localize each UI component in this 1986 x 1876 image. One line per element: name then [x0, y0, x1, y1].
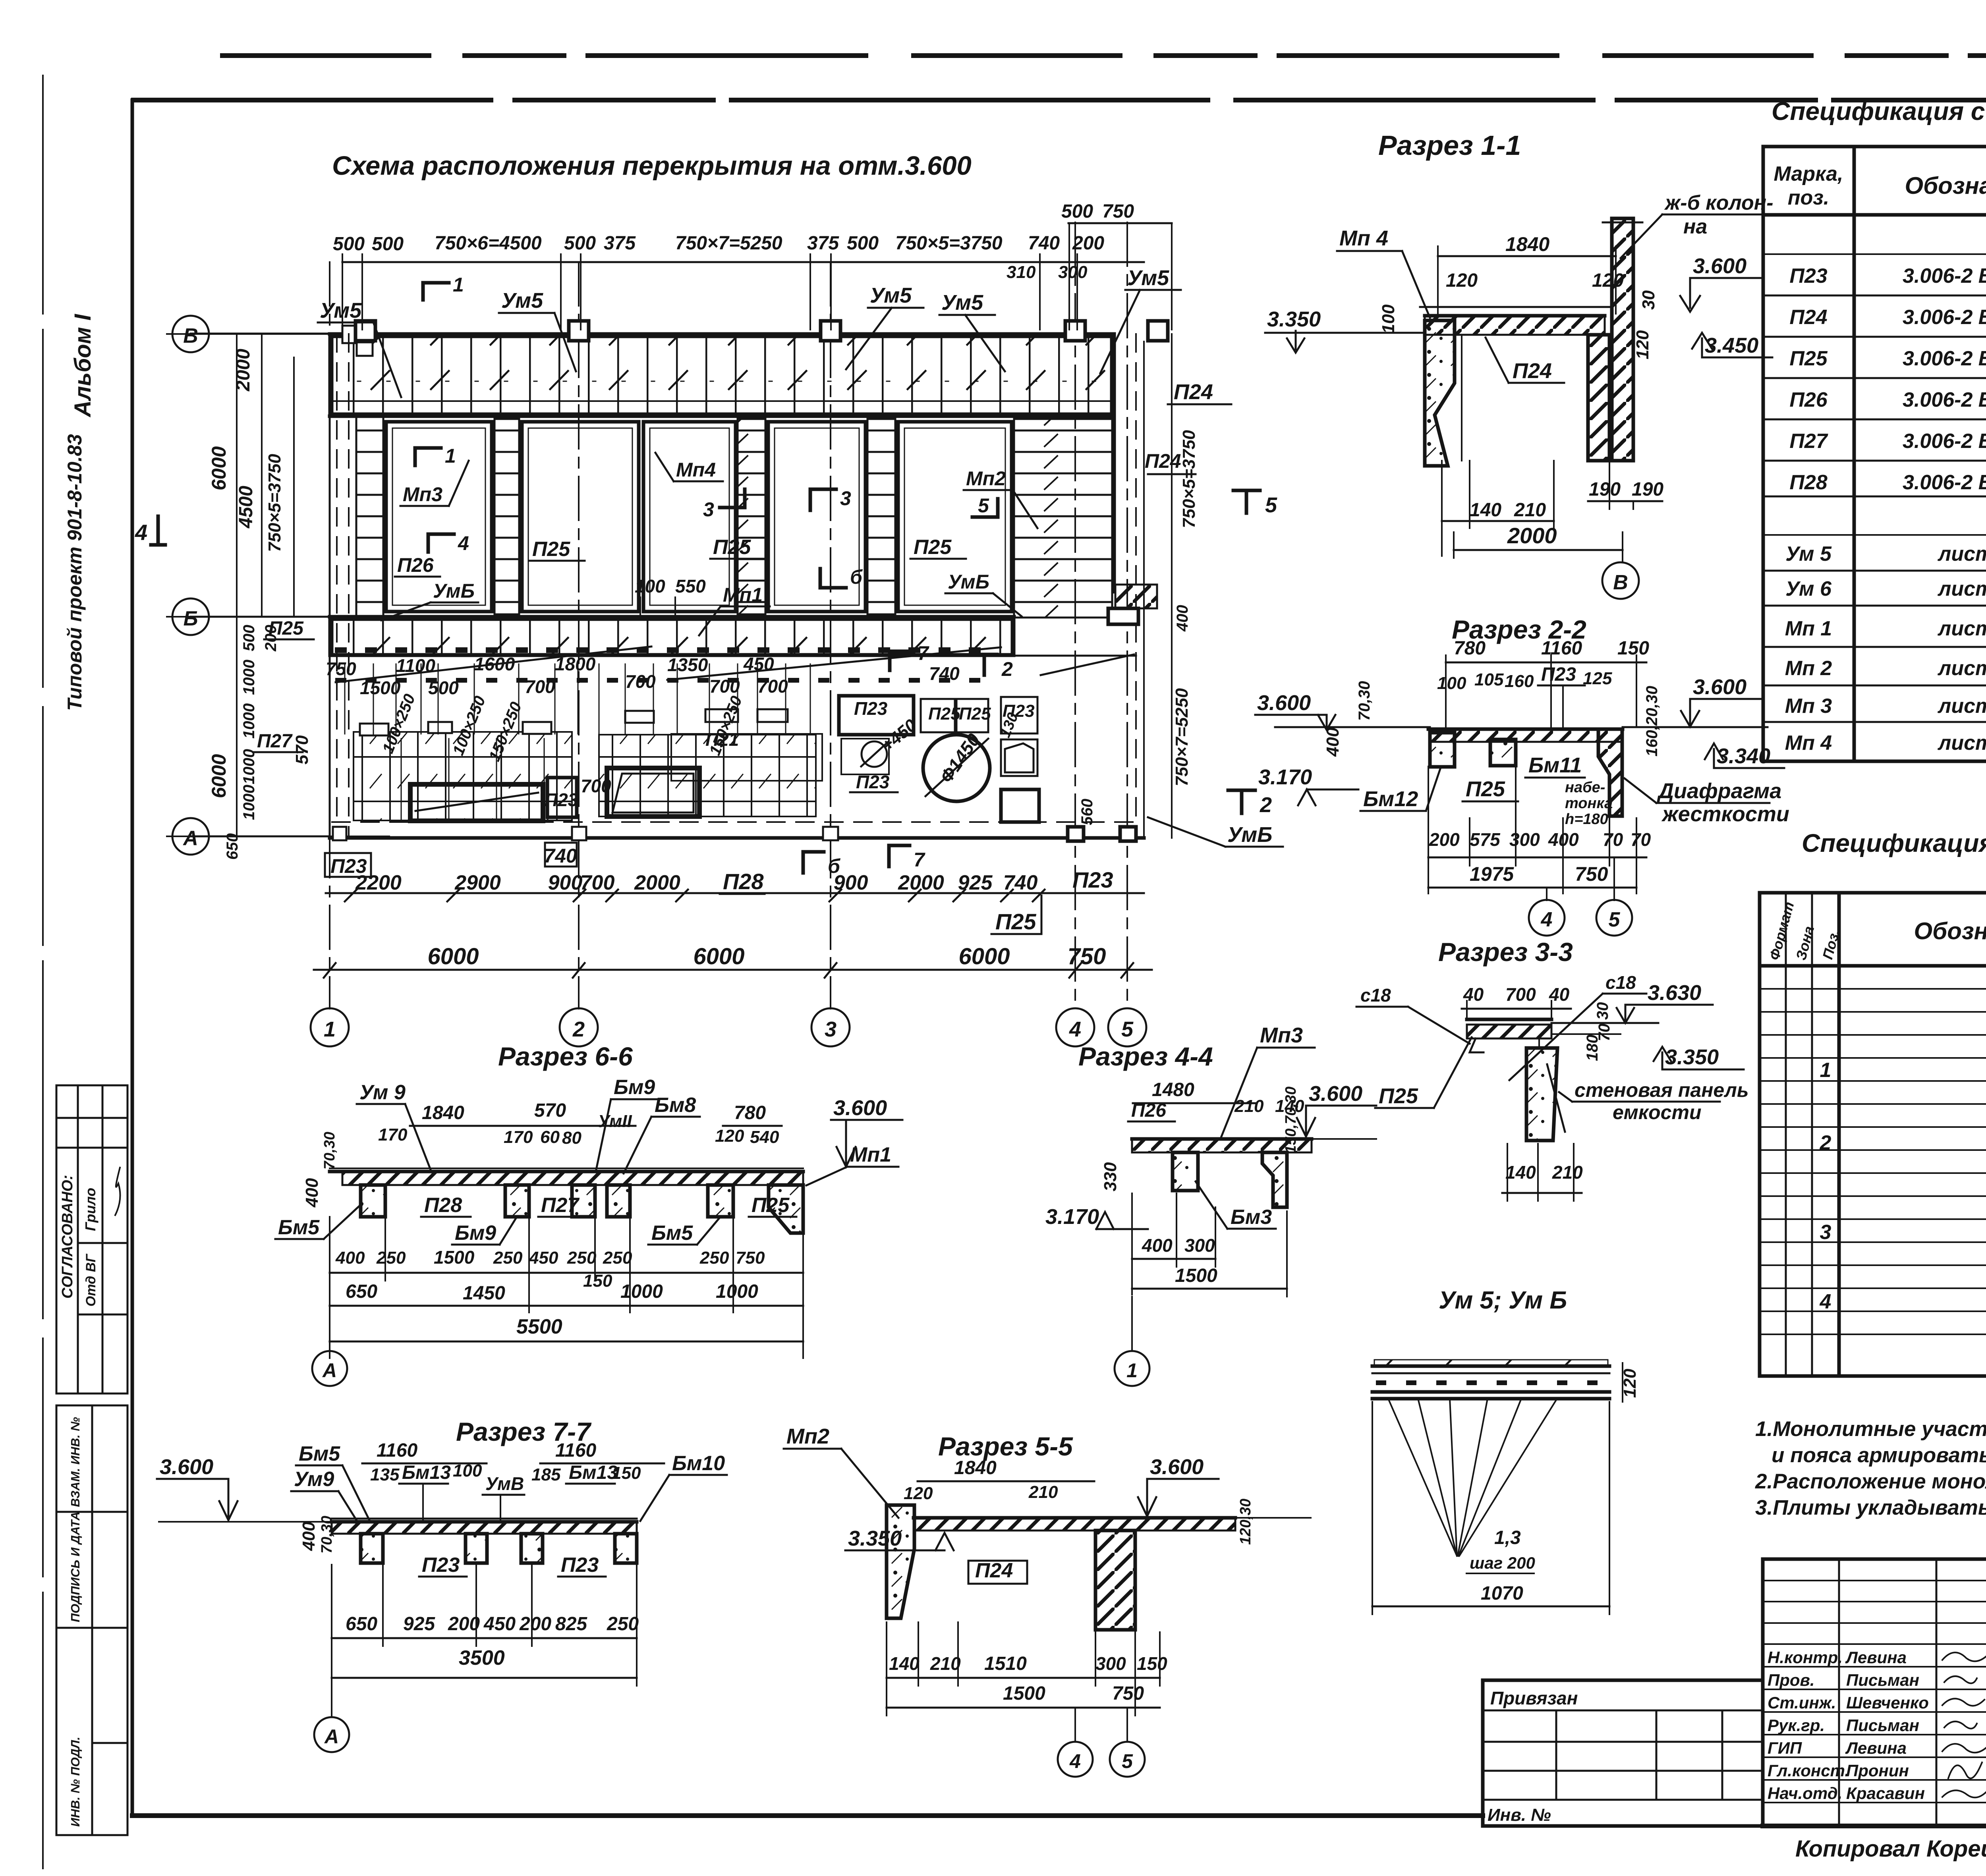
svg-text:Бм11: Бм11 [1528, 753, 1582, 777]
svg-text:Ум 5; Ум Б: Ум 5; Ум Б [1439, 1287, 1567, 1314]
beams 6-6 [361, 1185, 385, 1217]
left beam [1430, 733, 1455, 767]
section mark 2 right [972, 653, 997, 656]
svg-text:375: 375 [807, 233, 839, 254]
svg-text:3: 3 [825, 1017, 837, 1041]
svg-text:Бм5: Бм5 [278, 1216, 320, 1239]
svg-text:100: 100 [1379, 304, 1398, 334]
svg-text:185: 185 [531, 1465, 561, 1484]
svg-text:5: 5 [1265, 493, 1277, 517]
right wall + column hatched [1588, 335, 1609, 461]
svg-text:1840: 1840 [422, 1102, 464, 1123]
svg-text:150: 150 [1617, 638, 1649, 659]
svg-text:700: 700 [581, 776, 611, 796]
svg-text:Красавин: Красавин [1846, 1784, 1925, 1803]
svg-text:3500: 3500 [459, 1646, 505, 1669]
section marks bottom [802, 852, 805, 873]
svg-text:6000: 6000 [427, 944, 479, 969]
circle 1 [1131, 1297, 1133, 1350]
svg-text:Бм10: Бм10 [672, 1452, 725, 1475]
svg-text:Копировал Корецкая: Копировал Корецкая [1795, 1836, 1986, 1862]
fan lines [1388, 1399, 1457, 1556]
ladder wall [867, 419, 895, 614]
column squares on grid B [342, 326, 360, 343]
svg-text:П28: П28 [424, 1194, 462, 1217]
svg-text:1160: 1160 [555, 1440, 597, 1461]
rooms band outer walls [330, 415, 1114, 418]
beam 4-4 [1173, 1152, 1198, 1191]
svg-text:250: 250 [376, 1248, 406, 1268]
svg-text:А: А [182, 827, 198, 850]
svg-text:1500: 1500 [360, 677, 401, 698]
svg-text:П23: П23 [1541, 664, 1576, 685]
svg-text:570: 570 [292, 735, 312, 764]
svg-text:3.350: 3.350 [1665, 1045, 1719, 1069]
svg-text:3.006-2 Вып.II-2: 3.006-2 Вып.II-2 [1903, 430, 1986, 453]
svg-text:Привязан: Привязан [1490, 1688, 1578, 1708]
svg-text:с18: с18 [1605, 972, 1636, 993]
svg-text:Бм3: Бм3 [1231, 1206, 1272, 1229]
svg-text:2: 2 [1260, 793, 1272, 817]
svg-text:210: 210 [930, 1653, 961, 1674]
svg-text:Разрез 5-5: Разрез 5-5 [938, 1432, 1073, 1461]
svg-text:30: 30 [1594, 1002, 1611, 1020]
signatures squiggles [1942, 1652, 1986, 1661]
svg-text:Ст.инж.: Ст.инж. [1768, 1693, 1836, 1712]
svg-text:100: 100 [453, 1461, 482, 1480]
svg-text:450: 450 [483, 1614, 516, 1635]
svg-text:Бм8: Бм8 [655, 1094, 696, 1117]
T2 mark [1228, 789, 1255, 792]
svg-text:3.006-2 Вып.II-2: 3.006-2 Вып.II-2 [1903, 347, 1986, 370]
svg-text:925: 925 [403, 1614, 435, 1635]
svg-text:П26: П26 [1789, 388, 1828, 411]
svg-text:Схема расположения перекрытия: Схема расположения перекрытия на отм.3.6… [332, 151, 972, 181]
svg-text:6000: 6000 [958, 944, 1010, 969]
svg-text:100: 100 [1437, 674, 1466, 693]
svg-text:Марка,: Марка, [1774, 162, 1843, 185]
svg-text:Ум 5: Ум 5 [1785, 542, 1832, 566]
svg-text:Спецификация сборных ж-б монол: Спецификация сборных ж-б монолитных элем… [1772, 97, 1986, 125]
svg-text:650: 650 [346, 1281, 377, 1302]
svg-text:4: 4 [135, 520, 147, 545]
frame left border [131, 100, 134, 1816]
svg-text:Типовой проект 901-8-10.83: Типовой проект 901-8-10.83 [64, 434, 86, 711]
svg-text:740: 740 [929, 663, 960, 684]
room 5 [898, 422, 1012, 612]
svg-text:7: 7 [914, 849, 925, 871]
svg-text:б: б [828, 855, 841, 877]
svg-text:500: 500 [847, 233, 879, 254]
svg-text:250: 250 [607, 1614, 639, 1635]
svg-text:ж-б колон-: ж-б колон- [1664, 191, 1773, 214]
svg-text:5500: 5500 [516, 1315, 562, 1338]
svg-text:П25: П25 [1466, 777, 1505, 801]
svg-text:1160: 1160 [377, 1440, 418, 1461]
svg-text:900: 900 [548, 871, 583, 894]
middle beam [1490, 739, 1516, 766]
svg-text:П23: П23 [561, 1554, 599, 1577]
svg-text:750×6=4500: 750×6=4500 [435, 233, 542, 254]
svg-text:УмБ: УмБ [433, 580, 475, 602]
svg-text:Диафрагма: Диафрагма [1657, 779, 1781, 803]
svg-text:на: на [1683, 215, 1707, 238]
svg-text:П23: П23 [1789, 264, 1827, 288]
svg-text:Пронин: Пронин [1846, 1761, 1909, 1780]
svg-text:Грило: Грило [82, 1188, 99, 1231]
svg-text:Рук.гр.: Рук.гр. [1768, 1716, 1825, 1735]
svg-text:170: 170 [378, 1125, 408, 1145]
svg-text:1: 1 [1820, 1059, 1831, 1082]
slab 7-7 [159, 1521, 332, 1523]
svg-text:750×5=3750: 750×5=3750 [265, 454, 284, 552]
svg-text:190: 190 [1632, 479, 1663, 500]
svg-text:Мп2: Мп2 [786, 1424, 829, 1448]
svg-text:330: 330 [1101, 1162, 1120, 1191]
svg-text:2000: 2000 [1507, 523, 1557, 548]
svg-text:Альбом I: Альбом I [70, 313, 96, 418]
svg-text:Ум9: Ум9 [294, 1468, 334, 1491]
svg-text:180: 180 [1584, 1035, 1601, 1061]
svg-text:700: 700 [625, 671, 656, 692]
top paper broken line [222, 53, 1986, 58]
svg-text:3.600: 3.600 [833, 1096, 887, 1120]
svg-text:500: 500 [372, 234, 404, 255]
slab 3-3 [1467, 1025, 1551, 1038]
svg-text:Разрез 6-6: Разрез 6-6 [498, 1042, 633, 1071]
svg-text:Мп3: Мп3 [1260, 1023, 1303, 1047]
svg-text:Мп 3: Мп 3 [1785, 695, 1832, 718]
left paper edge [42, 75, 44, 1868]
svg-text:ВЗАМ. ИНВ. №: ВЗАМ. ИНВ. № [68, 1417, 82, 1507]
svg-text:1070: 1070 [1481, 1583, 1523, 1604]
band under B2 line [330, 615, 1014, 619]
room 4 [768, 422, 865, 612]
svg-text:Обозначение: Обозначение [1905, 172, 1986, 199]
svg-text:Бм5: Бм5 [651, 1222, 693, 1245]
svg-text:7: 7 [918, 642, 929, 664]
level line [1275, 726, 1430, 728]
svg-text:Н.контр.: Н.контр. [1768, 1648, 1843, 1667]
svg-text:120,30: 120,30 [1237, 1499, 1254, 1545]
right edge strip [1113, 334, 1116, 592]
svg-text:П25: П25 [1379, 1084, 1418, 1108]
svg-text:200: 200 [448, 1614, 480, 1635]
svg-text:П23: П23 [545, 789, 578, 810]
svg-text:Нач.отд.: Нач.отд. [1768, 1784, 1842, 1803]
circles 4 5 [1074, 1708, 1076, 1741]
svg-text:Бм9: Бм9 [614, 1076, 655, 1099]
svg-text:П23: П23 [1072, 867, 1113, 892]
svg-text:1100: 1100 [396, 655, 435, 676]
right diaphragm [1598, 729, 1622, 816]
manhole big F1450 [923, 735, 990, 801]
svg-text:170: 170 [504, 1127, 533, 1147]
svg-text:Ум 9: Ум 9 [359, 1081, 406, 1104]
svg-text:2900: 2900 [454, 871, 501, 894]
svg-text:и пояса армировать одновременн: и пояса армировать одновременно. [1772, 1444, 1986, 1467]
grid line B2 horizontal [167, 616, 389, 618]
svg-text:70: 70 [1603, 829, 1623, 850]
small posts on bottom edge [333, 827, 346, 840]
svg-text:200: 200 [1429, 829, 1460, 850]
approval block [56, 1085, 128, 1393]
hatched corner block right [1115, 585, 1157, 608]
svg-text:Письман: Письман [1846, 1671, 1919, 1689]
svg-text:П24: П24 [975, 1559, 1013, 1582]
svg-text:310: 310 [1007, 262, 1036, 282]
svg-text:Ум5: Ум5 [320, 299, 362, 322]
signature column block [1763, 1559, 1986, 1826]
svg-text:3.600: 3.600 [1257, 691, 1311, 715]
svg-text:В: В [1613, 571, 1628, 594]
svg-text:П23: П23 [422, 1554, 460, 1577]
svg-text:750: 750 [1112, 1683, 1144, 1704]
dashed boundary above plan bottom [332, 821, 1136, 823]
svg-text:4500: 4500 [236, 486, 257, 529]
svg-text:h=180: h=180 [1565, 811, 1608, 828]
slab 4-4 [1132, 1139, 1312, 1152]
svg-text:3.006-2 Вып.II-2: 3.006-2 Вып.II-2 [1903, 388, 1986, 411]
svg-text:1000: 1000 [240, 749, 258, 784]
svg-text:Разрез 3-3: Разрез 3-3 [1438, 937, 1573, 967]
svg-text:190: 190 [1589, 479, 1621, 500]
svg-text:750×7=5250: 750×7=5250 [675, 233, 782, 254]
svg-text:575: 575 [1470, 829, 1501, 850]
svg-text:550: 550 [675, 576, 706, 596]
svg-text:750: 750 [1102, 201, 1134, 222]
svg-text:1: 1 [445, 445, 456, 467]
svg-text:1000: 1000 [240, 660, 258, 695]
section mark 7 in plan [888, 651, 892, 670]
svg-text:П24: П24 [1145, 450, 1181, 472]
svg-text:1000: 1000 [620, 1281, 663, 1302]
svg-text:П23: П23 [330, 855, 367, 877]
svg-text:3.006-2 Вып.II-2: 3.006-2 Вып.II-2 [1903, 264, 1986, 288]
wall panel below [1526, 1048, 1557, 1141]
svg-text:П27: П27 [257, 731, 293, 752]
grid line B horizontal [167, 333, 365, 335]
svg-text:210: 210 [1552, 1162, 1583, 1183]
svg-text:30: 30 [1639, 290, 1658, 310]
grid circle B2 [172, 598, 209, 635]
svg-text:П23: П23 [854, 698, 888, 719]
svg-text:150: 150 [612, 1463, 641, 1483]
svg-text:Отд ВГ: Отд ВГ [83, 1253, 99, 1307]
right plate band (horizontal rungs) [1014, 419, 1112, 618]
svg-text:4: 4 [1069, 1017, 1081, 1041]
svg-text:150: 150 [1137, 1653, 1167, 1674]
svg-text:УмБ: УмБ [948, 571, 989, 593]
svg-text:300: 300 [1184, 1235, 1215, 1256]
beams 7-7 [361, 1534, 383, 1563]
svg-text:П28: П28 [1789, 471, 1827, 494]
svg-text:набе-: набе- [1565, 779, 1605, 796]
svg-text:70,30: 70,30 [319, 1516, 335, 1554]
grid circles 1-5 bottom [311, 1008, 349, 1046]
svg-text:650: 650 [346, 1614, 377, 1635]
svg-text:160,20,30: 160,20,30 [1643, 686, 1661, 757]
slab [1430, 729, 1621, 742]
svg-text:Мп2: Мп2 [966, 467, 1006, 490]
svg-text:300: 300 [1058, 262, 1088, 282]
svg-text:Обозначение: Обозначение [1914, 918, 1986, 944]
slab P24 hatched [1425, 316, 1605, 335]
frame top border [133, 98, 1986, 102]
lintel rects row [360, 724, 388, 735]
svg-text:Пров.: Пров. [1768, 1671, 1815, 1689]
svg-text:Письман: Письман [1846, 1716, 1919, 1735]
svg-text:П25: П25 [269, 618, 304, 639]
svg-text:750×5=3750: 750×5=3750 [895, 233, 1003, 254]
grid circle A [172, 818, 209, 855]
svg-text:П25: П25 [928, 704, 960, 724]
svg-text:ГИП: ГИП [1768, 1739, 1802, 1757]
svg-text:140: 140 [889, 1653, 920, 1674]
svg-text:5: 5 [978, 494, 989, 517]
svg-text:Ум5: Ум5 [870, 284, 912, 307]
svg-text:П25: П25 [752, 1194, 790, 1217]
svg-text:70,30: 70,30 [1356, 681, 1373, 721]
top plate band P24 [330, 334, 1114, 416]
svg-text:1000: 1000 [240, 785, 258, 820]
svg-text:Бм5: Бм5 [299, 1442, 340, 1465]
svg-text:4: 4 [458, 532, 469, 554]
svg-text:ИНВ. № ПОДЛ.: ИНВ. № ПОДЛ. [68, 1737, 82, 1827]
svg-text:2000: 2000 [898, 871, 944, 894]
svg-text:Разрез 4-4: Разрез 4-4 [1078, 1042, 1213, 1071]
svg-text:тонка: тонка [1565, 795, 1613, 812]
svg-text:3.630: 3.630 [1648, 981, 1701, 1005]
svg-text:570: 570 [534, 1100, 566, 1121]
svg-text:1,3: 1,3 [1494, 1527, 1521, 1548]
svg-text:750: 750 [736, 1248, 765, 1268]
svg-text:Разрез 1-1: Разрез 1-1 [1378, 130, 1521, 161]
svg-text:250: 250 [699, 1248, 729, 1268]
svg-text:150: 150 [583, 1271, 612, 1291]
slab 6-6 [342, 1172, 803, 1185]
svg-text:П25: П25 [1789, 347, 1828, 370]
svg-text:60: 60 [540, 1127, 560, 1147]
svg-text:1600: 1600 [474, 654, 515, 674]
ladder wall [495, 419, 519, 614]
svg-text:П26: П26 [1131, 1100, 1166, 1121]
inventory block [56, 1405, 128, 1835]
svg-text:1800: 1800 [555, 654, 596, 674]
svg-text:П25: П25 [532, 538, 570, 561]
svg-text:3.170: 3.170 [1045, 1205, 1099, 1229]
svg-text:3: 3 [840, 487, 851, 510]
long splice slanted lines [336, 647, 651, 682]
svg-text:1: 1 [1126, 1359, 1138, 1382]
svg-text:2: 2 [572, 1017, 585, 1041]
P21 zone rect [671, 734, 822, 781]
svg-text:1510: 1510 [984, 1653, 1027, 1674]
svg-text:П28: П28 [723, 869, 764, 894]
svg-text:450: 450 [743, 654, 774, 674]
svg-text:450: 450 [529, 1248, 558, 1268]
svg-text:3.600: 3.600 [1693, 254, 1746, 278]
svg-text:1975: 1975 [1470, 863, 1514, 885]
svg-text:3.170: 3.170 [1258, 765, 1312, 789]
frame bottom left segment [132, 1813, 1483, 1818]
svg-text:740: 740 [1003, 871, 1038, 894]
svg-text:250: 250 [493, 1248, 523, 1268]
svg-text:1840: 1840 [954, 1457, 997, 1478]
P23 small box [547, 778, 577, 817]
svg-text:375: 375 [604, 233, 636, 254]
svg-text:лист 48: лист 48 [1937, 731, 1986, 755]
svg-text:1: 1 [324, 1017, 336, 1041]
svg-text:А: А [324, 1725, 339, 1748]
room 2 [522, 422, 639, 612]
svg-text:120: 120 [1446, 270, 1478, 291]
svg-text:1500: 1500 [1175, 1265, 1217, 1286]
svg-text:П24: П24 [1513, 359, 1552, 383]
svg-text:400: 400 [335, 1248, 365, 1268]
svg-text:П24: П24 [1789, 306, 1827, 329]
svg-text:650: 650 [224, 833, 241, 860]
svg-text:4: 4 [1820, 1290, 1831, 1313]
svg-text:Мп4: Мп4 [676, 459, 716, 481]
svg-text:780: 780 [734, 1102, 766, 1123]
svg-text:1350: 1350 [667, 654, 708, 675]
svg-text:125: 125 [1583, 669, 1612, 688]
svg-text:УмВ: УмВ [485, 1473, 524, 1494]
svg-text:6000: 6000 [693, 944, 744, 969]
svg-text:1450: 1450 [463, 1283, 505, 1304]
svg-text:560: 560 [1078, 799, 1096, 825]
circle V [1602, 562, 1639, 599]
svg-text:лист 48: лист 48 [1937, 695, 1986, 718]
svg-text:Левина: Левина [1845, 1739, 1907, 1757]
svg-text:СОГЛАСОВАНО:: СОГЛАСОВАНО: [59, 1175, 76, 1299]
svg-text:210: 210 [1234, 1096, 1264, 1116]
svg-text:400: 400 [1174, 605, 1191, 632]
svg-text:400: 400 [1142, 1235, 1173, 1256]
svg-text:лист 48: лист 48 [1937, 617, 1986, 640]
svg-text:УмБ: УмБ [1227, 823, 1272, 847]
section mark 1 top [421, 283, 425, 300]
svg-text:П25: П25 [959, 704, 991, 724]
room 3 [643, 422, 736, 612]
svg-text:Мп 4: Мп 4 [1785, 731, 1832, 755]
left dashed column strip [336, 334, 338, 836]
svg-text:3.600: 3.600 [1150, 1455, 1204, 1479]
left big opening [410, 784, 543, 821]
svg-text:700: 700 [709, 676, 740, 697]
svg-text:3.Плиты укладывать на цем.-пес: 3.Плиты укладывать на цем.-песчаном раст… [1755, 1496, 1986, 1519]
grid line A horizontal [167, 836, 389, 837]
svg-text:б: б [850, 566, 863, 588]
svg-text:750: 750 [1068, 944, 1106, 969]
right column 5-5 [1095, 1531, 1135, 1630]
svg-text:1.Монолитные участки плиты пер: 1.Монолитные участки плиты перекрытия, м… [1755, 1417, 1986, 1441]
center-right plate grid [599, 735, 816, 816]
svg-text:750: 750 [326, 658, 356, 679]
svg-text:Бм12: Бм12 [1363, 787, 1418, 811]
svg-text:700: 700 [1505, 984, 1536, 1005]
svg-text:540: 540 [750, 1127, 779, 1147]
svg-text:Бм13: Бм13 [402, 1462, 451, 1483]
svg-text:3.600: 3.600 [1309, 1082, 1362, 1106]
svg-text:Б: Б [184, 607, 198, 630]
svg-text:ПОДПИСЬ И ДАТА: ПОДПИСЬ И ДАТА [68, 1511, 82, 1622]
dots row [338, 647, 993, 653]
ladder wall [738, 419, 765, 614]
svg-text:4: 4 [1069, 1750, 1081, 1772]
svg-text:500: 500 [333, 234, 365, 255]
